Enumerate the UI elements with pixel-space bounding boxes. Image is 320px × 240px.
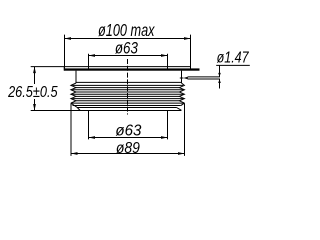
gate lead attachment triangle [183,77,188,79]
dim Ø100 max: extension line left [64,35,66,70]
dim Ø100 max: dimension line [65,38,191,40]
arrow 26.5 up [33,67,36,74]
device: bottom flange ring line 2 [77,107,176,109]
dim Ø89: dimension line [71,153,185,155]
device: body groove line [76,81,181,83]
gate lead: tick at body edge [180,77,184,79]
gate lead: wire top line [188,76,220,78]
device: body left edge [75,71,77,83]
dim Ø100 max: extension line right [190,35,192,71]
dim 26.5: dimension line upper [34,67,36,84]
arrow Ø100 left [65,37,72,40]
device: bottom flange right lower bevel [177,108,182,111]
dim Ø63 top: extension line left [88,54,90,69]
device: bottom flange ring line [73,105,181,107]
dim Ø1.47: dimension line lower [219,79,221,88]
arrow Ø63 bottom left [89,136,96,139]
dim Ø89: extension line left [70,103,72,156]
arrow Ø100 right [184,37,191,40]
device: top pole surface (merged with 26.5 extension line) [31,66,191,68]
device: body right edge [181,71,183,83]
device: rib zigzag left [71,83,76,103]
dim Ø1.47: leader line [216,64,250,66]
svg-text:ø1.47: ø1.47 [217,50,250,67]
dim Ø1.47: dimension line upper [219,65,221,76]
device: flange left edge [63,67,65,71]
gate lead: wire bottom line [188,78,220,80]
dim Ø63 bottom: dimension line [89,137,168,139]
arrow Ø89 right [178,152,185,155]
arrow Ø63 bottom right [161,136,168,139]
arrow Ø63 top right [161,54,168,57]
svg-text:ø89: ø89 [116,140,140,157]
dim Ø63 top: dimension line [89,55,168,57]
dim 26.5: dimension line lower [34,99,36,111]
dim Ø63 bottom: extension line left [88,111,90,140]
arrow Ø1.47 down [218,73,221,77]
dim Ø63 top: extension line right [167,54,169,69]
device: rib lines [73,84,184,86]
dim Ø89: extension line right [184,103,186,156]
arrow Ø1.47 up [218,79,221,83]
svg-text:26.5±0.5: 26.5±0.5 [7,84,57,101]
svg-text:ø63: ø63 [115,123,141,140]
arrow 26.5 down [33,104,36,111]
arrow Ø63 top left [89,54,96,57]
svg-text:ø63: ø63 [115,39,139,57]
device: bottom flange left bevel [71,103,80,110]
centerline (dashed axis) [127,59,129,115]
device: bottom flange right bevel [181,103,185,106]
svg-text:ø100 max: ø100 max [98,20,155,40]
device: flange bar (merged plate lines) [64,68,200,70]
arrow Ø89 left [71,152,78,155]
device: rib zigzag right [179,83,184,103]
device: bottom surface + 26.5 bottom extension [31,110,182,112]
dim Ø63 bottom: extension line right [167,111,169,140]
